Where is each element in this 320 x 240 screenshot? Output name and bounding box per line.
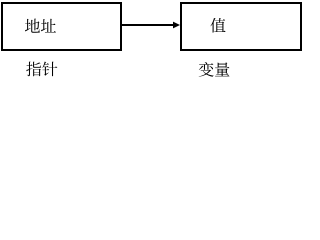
pointer box (address) bbox=[2, 3, 121, 50]
text 值 (value) bbox=[210, 18, 225, 33]
caption 指针 (pointer) bbox=[26, 62, 57, 77]
caption 变量 (variable) bbox=[199, 62, 230, 77]
arrow shaft bbox=[121, 24, 174, 26]
variable box (value) bbox=[181, 3, 301, 50]
text 地址 (address) bbox=[25, 19, 56, 33]
arrow head bbox=[173, 22, 180, 29]
